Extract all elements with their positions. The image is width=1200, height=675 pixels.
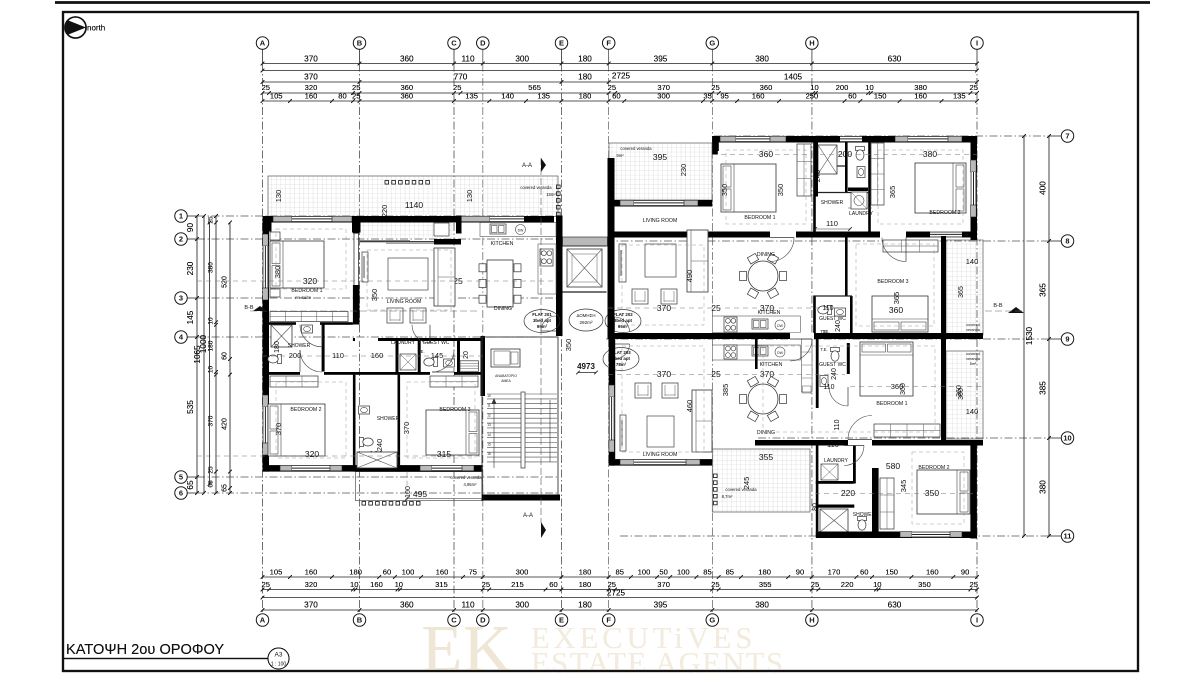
wall guestwc east (457, 338, 460, 375)
svg-text:KITCHEN: KITCHEN (491, 241, 514, 247)
svg-text:en-suite: en-suite (295, 295, 312, 300)
svg-text:DINING: DINING (757, 430, 775, 436)
top dim chain total spans (263, 63, 978, 65)
svg-text:I: I (976, 616, 978, 625)
stair treads (487, 393, 521, 395)
svg-text:320: 320 (305, 449, 319, 459)
kitchen sink (490, 224, 506, 234)
svg-text:10: 10 (208, 317, 215, 325)
svg-text:T.E.: T.E. (820, 347, 827, 352)
door flat202 entry (615, 317, 630, 332)
wall flat203 west (609, 339, 616, 466)
svg-text:370: 370 (304, 55, 318, 64)
svg-text:250: 250 (806, 92, 819, 101)
dim 495 line (407, 498, 483, 500)
window bedroom2N east (971, 160, 977, 172)
svg-text:C: C (451, 616, 457, 625)
svg-text:covered veranda: covered veranda (520, 185, 552, 190)
grid row lines 1-6 with bubbles (187, 215, 197, 217)
svg-text:370: 370 (208, 415, 215, 426)
svg-text:3: 3 (179, 294, 183, 303)
svg-text:BEDROOM 2: BEDROOM 2 (929, 210, 960, 216)
wall guestwc202 (813, 296, 816, 333)
svg-text:355: 355 (759, 452, 773, 462)
svg-text:SHOWER: SHOWER (288, 343, 311, 349)
wardrobe bedroom3 (430, 376, 478, 387)
svg-text:230: 230 (186, 261, 195, 275)
svg-text:100: 100 (638, 568, 651, 577)
kitchen stove (540, 249, 553, 266)
svg-text:G: G (709, 39, 715, 48)
kitchen203 counter (712, 345, 800, 360)
svg-text:95: 95 (720, 92, 728, 101)
grid row lines 1-6 with bubbles (187, 215, 197, 217)
wall bed1/living (353, 223, 360, 234)
veranda railing right col (557, 185, 561, 189)
svg-text:G: G (709, 616, 715, 625)
right dim chain 1530 (1023, 136, 1025, 536)
svg-text:300: 300 (515, 55, 529, 64)
svg-text:4973: 4973 (577, 362, 595, 371)
svg-text:25: 25 (811, 580, 819, 589)
kitchen202 sink (752, 319, 768, 329)
wall guestwc west (418, 338, 421, 375)
window kitchen top (461, 216, 490, 222)
svg-text:380: 380 (1039, 480, 1048, 494)
ensuite sink (302, 325, 313, 333)
dining203 table (748, 384, 778, 414)
kitchen counter top (480, 223, 556, 237)
wall bed1N east (813, 143, 816, 232)
wall bedroom2S west (872, 468, 879, 533)
left dim chain walls (215, 216, 217, 493)
svg-text:130: 130 (465, 190, 474, 203)
rug living203 (647, 416, 674, 447)
guestwc203 sink (820, 376, 828, 387)
svg-text:E: E (559, 39, 564, 48)
svg-text:160: 160 (926, 568, 939, 577)
svg-text:9: 9 (1065, 335, 1069, 344)
right dim chain 1530 (1023, 136, 1025, 536)
svg-text:65: 65 (208, 480, 215, 488)
svg-text:GUEST WC: GUEST WC (819, 316, 846, 322)
wall shower203 north (816, 505, 855, 508)
svg-text:20: 20 (463, 351, 470, 359)
svg-text:360: 360 (400, 55, 414, 64)
svg-text:A-A: A-A (522, 163, 532, 169)
svg-text:25: 25 (969, 580, 977, 589)
svg-text:160: 160 (752, 92, 765, 101)
wall flat203 east upper (941, 339, 946, 440)
section A-A line (540, 158, 542, 523)
svg-text:140: 140 (501, 92, 514, 101)
svg-text:180: 180 (578, 55, 592, 64)
armchair living203 a (635, 383, 651, 398)
wall strip north y322 (263, 322, 353, 325)
kitchen dw (516, 225, 526, 235)
svg-text:110: 110 (332, 351, 344, 360)
window bedroom3 south (420, 465, 432, 471)
wall east living strip (941, 236, 946, 335)
svg-text:10: 10 (873, 580, 881, 589)
nightstand b1b (270, 289, 280, 297)
elevator shaft walls (563, 237, 608, 246)
svg-text:ΔΟΜΗΣΗ: ΔΟΜΗΣΗ (577, 313, 596, 318)
svg-text:D: D (480, 39, 486, 48)
svg-text:A: A (260, 39, 266, 48)
wall bedroom1S west (755, 339, 758, 369)
svg-text:200: 200 (289, 351, 302, 360)
svg-text:365: 365 (958, 286, 965, 298)
svg-text:490: 490 (685, 270, 694, 283)
svg-text:50: 50 (659, 568, 667, 577)
bottom dim chain total spans (263, 609, 978, 611)
svg-text:110: 110 (834, 419, 841, 430)
svg-text:180: 180 (579, 580, 592, 589)
svg-text:8,7m²: 8,7m² (722, 494, 733, 499)
wall laundry south (816, 481, 854, 484)
midshower toilet (360, 438, 374, 447)
kitchen202 stove (724, 317, 737, 332)
svg-text:140: 140 (966, 257, 979, 266)
svg-text:3bed apt: 3bed apt (533, 318, 552, 323)
rug living202 (645, 244, 676, 277)
svg-text:60: 60 (612, 92, 620, 101)
svg-text:25: 25 (453, 83, 461, 92)
svg-text:135: 135 (537, 92, 550, 101)
wardrobe bedroom1 south (270, 312, 348, 322)
svg-text:11: 11 (1064, 532, 1072, 541)
svg-text:180: 180 (758, 568, 771, 577)
svg-text:2: 2 (179, 235, 183, 244)
wall living south y338 (353, 338, 485, 341)
svg-text:360: 360 (400, 92, 413, 101)
ref dashed y493 right (815, 493, 977, 495)
svg-text:360: 360 (900, 383, 907, 395)
armchair living202 b (661, 289, 677, 304)
svg-text:355: 355 (759, 580, 772, 589)
wall living202 north (609, 200, 712, 207)
ref dashed y456 (197, 455, 480, 457)
left dim chain grid spans (196, 216, 198, 493)
svg-text:T.E.: T.E. (820, 329, 827, 334)
ref dashed x407 veranda (406, 472, 408, 505)
svg-text:11: 11 (487, 404, 491, 408)
door gap mid 1 (770, 231, 796, 238)
svg-text:T.E.: T.E. (417, 349, 424, 354)
wall right-block east upper (971, 136, 978, 240)
svg-text:135: 135 (465, 92, 478, 101)
stair rail (521, 392, 525, 468)
svg-text:LIVING ROOM: LIVING ROOM (387, 299, 422, 305)
svg-text:E: E (559, 616, 564, 625)
svg-text:60: 60 (860, 568, 868, 577)
column A1 (263, 216, 272, 232)
svg-text:10: 10 (865, 83, 873, 92)
door living202 entry (770, 238, 794, 262)
shower202 sink (857, 167, 865, 178)
svg-text:65: 65 (186, 480, 195, 490)
nightstand b1a (270, 232, 280, 240)
svg-text:BEDROOM 3: BEDROOM 3 (877, 279, 908, 285)
grid row lines 7-11 with bubbles (1049, 135, 1061, 137)
left dim chain inner (229, 223, 231, 494)
door bedroom1 201 (300, 325, 322, 347)
svg-text:220: 220 (841, 580, 854, 589)
guest wc sink (444, 359, 455, 367)
svg-text:160: 160 (305, 568, 318, 577)
svg-text:105: 105 (270, 568, 283, 577)
svg-text:BEDROOM 3: BEDROOM 3 (439, 407, 470, 413)
svg-text:12: 12 (487, 413, 491, 417)
svg-text:25: 25 (711, 369, 721, 379)
svg-text:25: 25 (261, 580, 269, 589)
svg-text:400: 400 (1039, 181, 1048, 195)
svg-text:360: 360 (400, 601, 414, 610)
top dim chain walls (263, 92, 978, 94)
ceiling dashes bedroom2 201 (276, 382, 346, 458)
sheet top edge line (55, 1, 1150, 3)
svg-text:100: 100 (677, 568, 690, 577)
veranda railing flat201 bottom (362, 502, 366, 506)
guestwc202 toilet (818, 306, 832, 315)
svg-text:110: 110 (461, 601, 474, 610)
svg-text:345: 345 (899, 480, 908, 493)
svg-text:395: 395 (654, 55, 668, 64)
north arrow symbol (65, 17, 86, 38)
ceiling dashes bedroom3 201 (407, 382, 475, 458)
svg-text:14: 14 (487, 433, 491, 437)
svg-text:90: 90 (186, 223, 195, 233)
window living203 south (620, 459, 634, 465)
svg-text:380: 380 (208, 262, 215, 273)
sheet top edge line (55, 1, 1150, 3)
svg-text:100: 100 (405, 486, 412, 498)
svg-text:200: 200 (836, 83, 849, 92)
ref dashed y154 right (712, 154, 977, 156)
kitchen203 stove (724, 345, 737, 359)
svg-text:370: 370 (402, 422, 411, 435)
door gap strip south1 (300, 372, 324, 375)
svg-text:DINING: DINING (757, 252, 775, 258)
column B1 (352, 216, 361, 233)
svg-text:150: 150 (885, 568, 898, 577)
shower203 tray (820, 509, 848, 532)
left dim chain walls (215, 216, 217, 493)
svg-text:110: 110 (826, 219, 838, 228)
wall living203 south (609, 459, 713, 466)
svg-text:9m²: 9m² (616, 153, 624, 158)
top dim chain sub (263, 81, 978, 83)
wardrobe bedroom1S (874, 424, 940, 437)
bed bedroom3N (872, 296, 928, 332)
svg-text:BEDROOM 2: BEDROOM 2 (918, 465, 949, 471)
stair arrow (493, 400, 495, 468)
top dim chain openings (263, 100, 978, 102)
svg-text:north: north (87, 24, 105, 33)
svg-text:110: 110 (461, 55, 474, 64)
bottom dim chain walls (263, 589, 978, 591)
kitchen203 sink (752, 346, 768, 356)
svg-text:B-B: B-B (993, 303, 1003, 309)
rug living1 (388, 258, 428, 290)
svg-text:365: 365 (892, 292, 901, 305)
svg-text:10: 10 (208, 366, 215, 374)
stair treads right (525, 393, 557, 395)
ensuite toilet (268, 355, 282, 364)
svg-text:200: 200 (838, 149, 852, 159)
core west wall (556, 306, 563, 336)
left dim chain 1065 (203, 216, 205, 493)
laundry machine (400, 354, 416, 370)
svg-text:4,95m²: 4,95m² (463, 482, 477, 487)
svg-text:300: 300 (657, 92, 670, 101)
top dim chain openings (263, 100, 978, 102)
scale circle A3 1:100 (268, 648, 289, 669)
svg-text:385: 385 (721, 384, 730, 397)
svg-text:315: 315 (435, 580, 448, 589)
svg-text:5: 5 (179, 473, 183, 482)
covered veranda flat203 NE hatch (946, 351, 983, 439)
svg-text:1405: 1405 (784, 73, 803, 82)
window bedroom2 west (263, 395, 269, 407)
armchair living1 a (387, 308, 403, 323)
svg-text:25: 25 (711, 580, 719, 589)
shower202 toilet (856, 147, 865, 161)
column G7 (712, 136, 719, 151)
left dim chain 1000 (209, 223, 211, 485)
svg-text:LAUNDRY: LAUNDRY (849, 211, 873, 217)
wall shower202 west (814, 143, 819, 197)
svg-text:10: 10 (487, 394, 491, 398)
TE shaft box (460, 361, 479, 372)
armchair living203 b (662, 383, 678, 398)
core east wall (608, 158, 615, 306)
svg-text:veranda: veranda (966, 357, 981, 361)
svg-text:I: I (976, 39, 978, 48)
svg-text:35: 35 (703, 92, 711, 101)
svg-text:C: C (451, 39, 457, 48)
left dim chain grid spans (196, 216, 198, 493)
svg-text:630: 630 (888, 601, 902, 610)
flat202 tag (605, 310, 641, 333)
title underline (63, 658, 289, 660)
window bedroom2 south (280, 465, 292, 471)
svg-text:380: 380 (923, 149, 937, 159)
wardrobe bed1N (797, 144, 811, 196)
svg-text:65: 65 (222, 484, 229, 492)
ceiling dashes bedroom3N 202 (856, 244, 934, 326)
left dim chain 1065 (203, 216, 205, 493)
guestwc202 sink (835, 308, 846, 316)
svg-text:60: 60 (383, 568, 391, 577)
svg-text:25: 25 (208, 216, 215, 224)
svg-text:DW: DW (777, 351, 783, 355)
svg-text:395: 395 (653, 152, 667, 162)
wall flat203 south (816, 532, 977, 539)
svg-text:80: 80 (338, 92, 346, 101)
ensuite shower tray (271, 325, 292, 347)
svg-text:H: H (809, 39, 814, 48)
flat203 tag (603, 348, 639, 371)
door flat203 entry core (615, 344, 630, 359)
svg-text:H: H (809, 616, 814, 625)
svg-text:140: 140 (966, 407, 979, 416)
grid column lines A-I with bubbles (262, 49, 264, 64)
svg-text:FLAT 201: FLAT 201 (532, 312, 552, 317)
svg-text:7: 7 (1065, 132, 1069, 141)
svg-text:1 : 100: 1 : 100 (271, 662, 287, 668)
left dim chain 1000 (209, 223, 211, 485)
window bedroom1N north (720, 136, 736, 142)
ref dashed y386 right (850, 386, 983, 388)
svg-text:18m²: 18m² (546, 192, 556, 197)
wall shower203 west (816, 446, 819, 537)
svg-text:KITCHEN: KITCHEN (758, 310, 781, 316)
svg-text:78m²: 78m² (616, 362, 627, 367)
svg-text:A3: A3 (275, 652, 283, 659)
stair enclosure (482, 337, 558, 499)
svg-text:85: 85 (615, 568, 623, 577)
svg-text:15: 15 (487, 443, 491, 447)
svg-text:370: 370 (304, 73, 318, 82)
left dim chain inner (229, 223, 231, 494)
svg-text:220: 220 (841, 488, 855, 498)
sofa living1 (434, 248, 455, 306)
svg-text:25: 25 (969, 83, 977, 92)
svg-text:16: 16 (487, 452, 491, 456)
wall flat divider y333 (609, 333, 983, 339)
svg-text:2725: 2725 (607, 589, 626, 598)
svg-text:350: 350 (564, 339, 573, 352)
window living sliding (360, 241, 434, 243)
svg-text:360: 360 (889, 305, 903, 315)
armchair living1 b (410, 308, 426, 323)
top dim chain walls (263, 92, 978, 94)
title underline (63, 658, 289, 660)
svg-text:1530: 1530 (1025, 326, 1034, 345)
svg-text:130: 130 (274, 190, 283, 203)
ceiling dashes living 201 (367, 250, 451, 310)
svg-text:350: 350 (776, 184, 785, 197)
svg-text:ΑΜΕΑ: ΑΜΕΑ (501, 379, 511, 383)
svg-text:420: 420 (222, 418, 229, 430)
svg-text:8: 8 (1065, 237, 1069, 246)
bed bedroom2 (268, 404, 325, 456)
bed bedroom1N (721, 164, 776, 212)
wall flat203 east lower (970, 446, 977, 539)
window living202 mid-east (930, 232, 962, 238)
svg-text:215: 215 (511, 580, 524, 589)
door gap strip north (296, 322, 320, 325)
svg-text:75: 75 (469, 568, 477, 577)
svg-text:DINING: DINING (494, 306, 512, 312)
kitchen fridge (434, 223, 449, 236)
svg-text:160: 160 (436, 568, 449, 577)
wall shower/bed3 (398, 375, 401, 472)
door bedroom1S (848, 416, 872, 440)
ref dashed y308 right (608, 307, 845, 309)
svg-text:105: 105 (270, 92, 283, 101)
svg-text:6: 6 (179, 489, 183, 498)
wardrobe bedroom2S (880, 478, 894, 529)
svg-text:320: 320 (305, 580, 318, 589)
kitchen202 counter (712, 316, 800, 333)
svg-text:370: 370 (304, 601, 318, 610)
svg-text:520: 520 (222, 276, 229, 288)
armchair living202 a (632, 289, 648, 304)
wall shower202 partitions (816, 165, 845, 167)
